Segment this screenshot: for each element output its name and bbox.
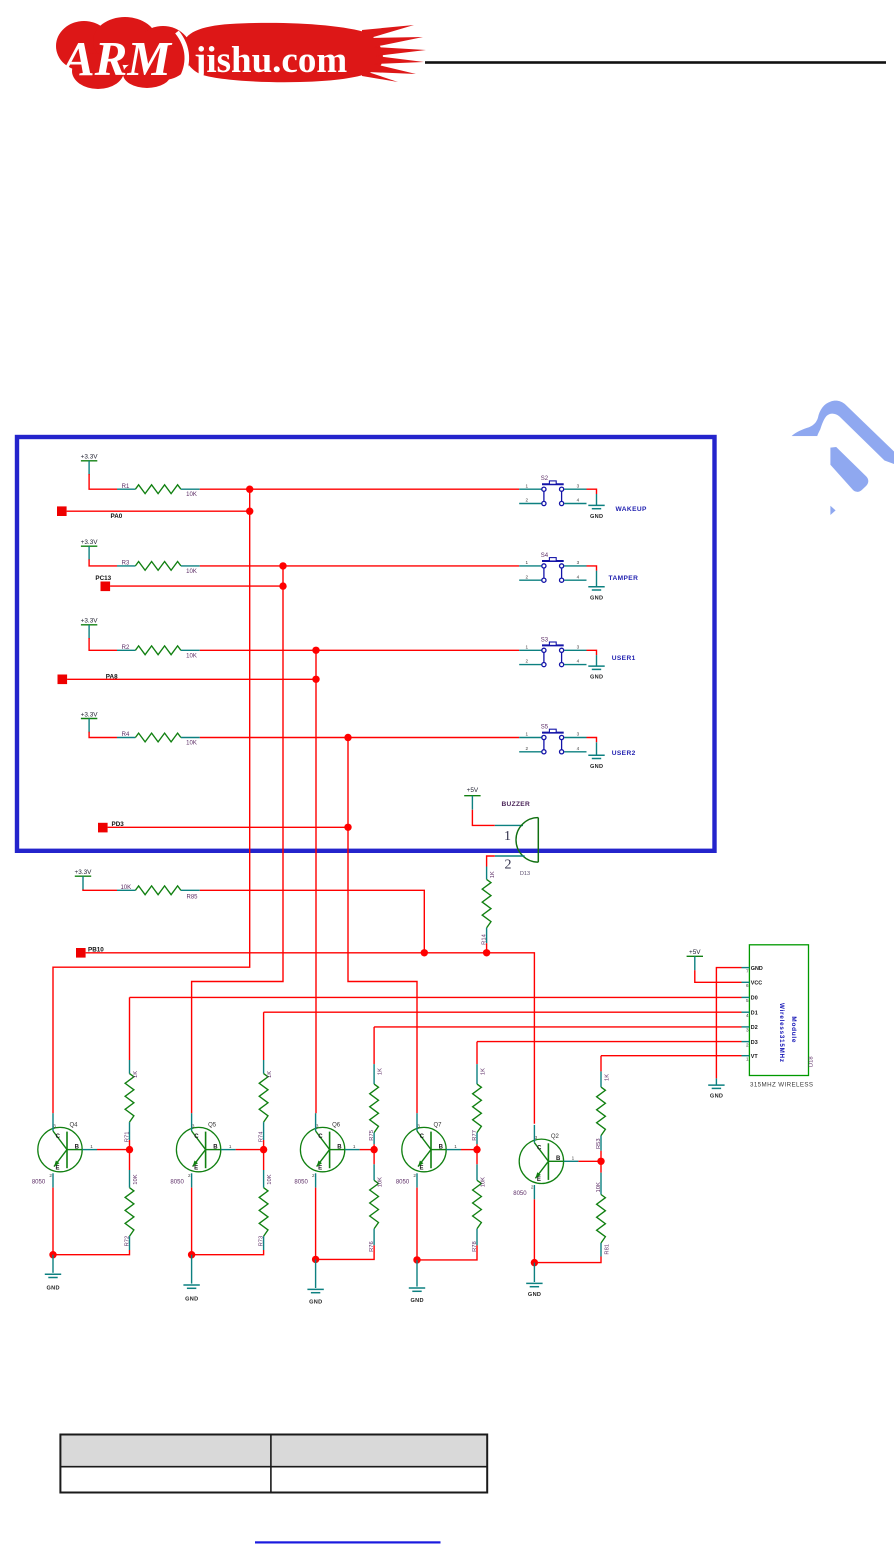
wire S5 pin3 to gnd (587, 738, 597, 743)
wire: +3.3V to R3 (89, 559, 117, 566)
wire module GND pin to ground (716, 968, 741, 1079)
svg-text:PC13: PC13 (95, 575, 111, 582)
svg-text:GND: GND (590, 595, 603, 601)
svg-text:R53: R53 (596, 1138, 602, 1149)
wire R2 to switch S3 (200, 649, 519, 651)
svg-text:R73: R73 (259, 1236, 265, 1247)
svg-text:3: 3 (577, 644, 580, 649)
buzzer D13 (516, 818, 538, 863)
svg-text:R77: R77 (472, 1130, 478, 1141)
resistor R73 10K (263, 1150, 265, 1170)
svg-text:1K: 1K (133, 1071, 139, 1078)
svg-text:10K: 10K (186, 741, 197, 747)
svg-text:S3: S3 (541, 637, 549, 643)
pin PB10 (76, 948, 86, 958)
wire: +3.3V to R4 (89, 732, 117, 738)
wire emitter Q5 down (191, 1188, 193, 1255)
svg-text:VCC: VCC (751, 981, 762, 987)
svg-text:D3: D3 (751, 1040, 758, 1046)
wire emitter Q2 down (533, 1199, 535, 1262)
svg-text:2: 2 (526, 574, 529, 579)
svg-text:S2: S2 (541, 476, 549, 482)
wire +5V to buzzer pin1 (472, 810, 494, 826)
svg-text:D18: D18 (808, 1056, 814, 1067)
svg-text:Module: Module (790, 1016, 797, 1042)
wire net D0 (130, 996, 742, 998)
wire R85 to PB10 node (200, 890, 424, 953)
resistor R81 10K (600, 1161, 602, 1172)
svg-text:R81: R81 (604, 1244, 610, 1255)
transistor Q6 (294, 1113, 359, 1187)
svg-text:+3.3V: +3.3V (81, 618, 99, 625)
resistor R78 10K (476, 1150, 478, 1165)
ground row1 (588, 505, 604, 508)
svg-text:ARM: ARM (59, 31, 172, 86)
node base Q6 (370, 1146, 377, 1153)
node junction R2/column (312, 647, 319, 654)
svg-text:10K: 10K (267, 1174, 273, 1184)
resistor R74 1K (263, 1012, 265, 1060)
pin PA8 (58, 675, 68, 685)
svg-text:GND: GND (590, 514, 603, 520)
ground Q6 (307, 1289, 323, 1292)
ground module (708, 1085, 724, 1088)
svg-text:R71: R71 (125, 1132, 131, 1143)
power +3.3V row4 (81, 719, 97, 733)
node emitter junction Q6 (312, 1256, 319, 1263)
module pin names (751, 966, 763, 1060)
svg-text:2: 2 (526, 659, 529, 664)
switch S2 (519, 481, 586, 506)
svg-text:7: 7 (746, 968, 749, 973)
svg-text:R1: R1 (122, 484, 130, 490)
wire column PA8 down to Q6 (315, 650, 317, 1113)
svg-text:USER1: USER1 (612, 655, 636, 662)
wire R1 to switch S2 (200, 488, 519, 490)
pin PD3 (98, 823, 108, 833)
svg-text:GND: GND (590, 675, 603, 681)
wire +3.3V to R85 (83, 888, 117, 891)
node junction R85/PB10 (421, 949, 428, 956)
wire buzzer pin2 to R14 (495, 855, 525, 857)
node junction R14/PB10 (483, 949, 490, 956)
svg-text:10K: 10K (378, 1177, 384, 1187)
power +3.3V row1 (81, 461, 97, 475)
svg-text:GND: GND (47, 1286, 60, 1292)
svg-text:Q2: Q2 (551, 1134, 560, 1140)
transistor Q5 (170, 1113, 235, 1187)
resistor R85 10K (117, 889, 135, 891)
switch S4 (519, 558, 586, 583)
svg-text:1: 1 (526, 644, 529, 649)
svg-text:1: 1 (746, 1057, 749, 1062)
svg-text:R2: R2 (122, 645, 130, 651)
resistor R75 1K (373, 1027, 375, 1064)
svg-text:315MHZ WIRELESS: 315MHZ WIRELESS (750, 1082, 813, 1089)
svg-text:PA0: PA0 (111, 513, 123, 520)
svg-text:3: 3 (577, 483, 580, 488)
svg-text:4: 4 (577, 498, 580, 503)
svg-text:Q4: Q4 (70, 1122, 79, 1128)
wire S4 pin3 to gnd (587, 566, 597, 571)
wire S2 pin3 to gnd (587, 489, 597, 494)
svg-text:+3.3V: +3.3V (81, 454, 99, 461)
svg-text:+5V: +5V (689, 949, 701, 956)
svg-text:10K: 10K (186, 653, 197, 659)
svg-text:4: 4 (577, 659, 580, 664)
svg-text:R4: R4 (122, 732, 130, 738)
svg-text:Wireless315MHz: Wireless315MHz (778, 1003, 785, 1062)
node junction R4/column (344, 734, 351, 741)
wire net VT (601, 1055, 742, 1057)
power +5V buzzer (464, 796, 480, 810)
node junction PD3/column (344, 824, 351, 831)
transistor Q7 (396, 1113, 461, 1187)
wire base Q2 (578, 1160, 601, 1162)
pin PC13 (101, 582, 111, 592)
svg-text:D2: D2 (751, 1025, 758, 1031)
ground row2 (588, 587, 604, 590)
ground Q2 (526, 1283, 542, 1286)
wire emitter Q6 down (315, 1188, 317, 1260)
svg-text:10K: 10K (596, 1182, 602, 1192)
resistor R1 10K (117, 488, 135, 490)
svg-text:VT: VT (751, 1054, 759, 1060)
svg-text:WAKEUP: WAKEUP (616, 506, 648, 513)
svg-text:2: 2 (526, 746, 529, 751)
resistor R53 1K (600, 1056, 602, 1072)
ground Q4 (45, 1274, 61, 1277)
node base Q7 (473, 1146, 480, 1153)
svg-text:R72: R72 (125, 1236, 131, 1247)
node emitter junction Q4 (49, 1251, 56, 1258)
svg-text:GND: GND (528, 1292, 541, 1298)
svg-text:+3.3V: +3.3V (81, 539, 99, 546)
wire base Q4 (97, 1149, 130, 1151)
svg-text:2: 2 (526, 498, 529, 503)
module pin numbers (746, 968, 749, 1061)
node base Q2 (597, 1158, 604, 1165)
node base Q4 (126, 1146, 133, 1153)
resistor R4 10K (117, 737, 135, 739)
ground row4 (588, 755, 604, 758)
switch S3 (519, 642, 586, 667)
pin PA0 (57, 506, 67, 516)
switch S5 (519, 729, 586, 754)
svg-text:GND: GND (590, 764, 603, 770)
power +5V module (687, 956, 703, 970)
wire column PD3 down to Q7 (348, 738, 417, 1114)
ground row3 (588, 666, 604, 669)
node emitter junction Q5 (188, 1251, 195, 1258)
svg-text:D1: D1 (751, 1010, 758, 1016)
ARMjishu logo (56, 17, 426, 89)
node base Q5 (260, 1146, 267, 1153)
wire emitter Q7 down (416, 1188, 418, 1260)
svg-text:R14: R14 (482, 933, 488, 944)
svg-text:1K: 1K (480, 1068, 486, 1075)
transistor Q4 (32, 1113, 97, 1187)
wire PA8 net (67, 678, 316, 680)
ground Q7 (409, 1288, 425, 1291)
wire PD3 net (108, 826, 348, 828)
svg-text:GND: GND (309, 1299, 322, 1305)
svg-text:Q7: Q7 (434, 1122, 443, 1128)
svg-text:2: 2 (505, 857, 512, 872)
svg-text:+5V: +5V (467, 787, 479, 794)
svg-text:GND: GND (751, 966, 763, 972)
node junction PA8/column (312, 676, 319, 683)
svg-text:2: 2 (746, 1042, 749, 1047)
svg-text:10K: 10K (186, 569, 197, 575)
svg-text:6: 6 (746, 983, 749, 988)
blue border box (17, 437, 715, 851)
svg-text:R85: R85 (186, 895, 198, 901)
svg-text:USER2: USER2 (612, 750, 636, 757)
svg-text:GND: GND (710, 1094, 723, 1100)
wire base Q6 (360, 1149, 375, 1151)
wire column PC13 down to Q5 (192, 566, 283, 1113)
svg-text:1K: 1K (604, 1074, 610, 1081)
wire net D1 (264, 1011, 742, 1013)
power +3.3V row3 (81, 625, 97, 639)
svg-text:Q5: Q5 (208, 1122, 217, 1128)
resistor R77 1K (476, 1042, 478, 1065)
svg-text:10K: 10K (186, 492, 197, 498)
svg-text:3: 3 (746, 1028, 749, 1033)
node emitter junction Q2 (531, 1259, 538, 1266)
wire: +3.3V to R1 (89, 474, 117, 489)
node junction R3/column (279, 562, 286, 569)
svg-text:jishu.com: jishu.com (193, 40, 347, 81)
svg-text:Q6: Q6 (332, 1122, 341, 1128)
resistor R72 10K (129, 1150, 131, 1170)
wire net D2 (374, 1026, 741, 1028)
svg-text:GND: GND (411, 1298, 424, 1304)
wire PB10 net to Q2 collector (86, 953, 535, 1124)
svg-text:+3.3V: +3.3V (75, 869, 93, 876)
watermark glyph (clipped by schematic image white area) (0, 401, 894, 1137)
wire R3 to switch S4 (200, 565, 519, 567)
svg-text:3: 3 (577, 732, 580, 737)
node junction PC13/column (279, 582, 286, 589)
svg-text:3: 3 (577, 560, 580, 565)
svg-text:1: 1 (526, 732, 529, 737)
svg-text:1: 1 (504, 829, 511, 844)
wire S3 pin3 to gnd (587, 650, 597, 655)
svg-text:R74: R74 (259, 1131, 265, 1142)
svg-text:1K: 1K (378, 1068, 384, 1075)
svg-text:1: 1 (526, 560, 529, 565)
svg-text:4: 4 (577, 746, 580, 751)
wire base Q5 (236, 1149, 264, 1151)
svg-text:TAMPER: TAMPER (609, 575, 639, 582)
transistor Q2 (513, 1125, 578, 1199)
svg-text:4: 4 (577, 574, 580, 579)
resistor R3 10K (117, 565, 135, 567)
wire: +3.3V to R2 (89, 638, 117, 650)
svg-text:10K: 10K (133, 1174, 139, 1184)
svg-text:R75: R75 (369, 1130, 375, 1141)
module pin leads (742, 968, 750, 1056)
resistor R71 1K (129, 997, 131, 1060)
svg-text:R78: R78 (472, 1241, 478, 1252)
wire column PA0 down to Q4 (53, 489, 250, 1113)
svg-text:+3.3V: +3.3V (81, 711, 99, 718)
power +3.3V row2 (81, 546, 97, 560)
svg-text:R76: R76 (369, 1241, 375, 1252)
bottom hyperlink underline (255, 1541, 441, 1543)
wire net D3 (477, 1041, 742, 1043)
svg-text:4: 4 (746, 1013, 749, 1018)
wire emitter Q4 down (52, 1188, 54, 1255)
node junction R1/PA0 column (246, 486, 253, 493)
resistor R2 10K (117, 649, 135, 651)
svg-text:1K: 1K (267, 1071, 273, 1078)
svg-text:R3: R3 (122, 561, 130, 567)
wire +5V to VCC (695, 970, 742, 982)
svg-text:GND: GND (185, 1296, 198, 1302)
svg-text:S4: S4 (541, 553, 549, 559)
svg-text:1: 1 (526, 483, 529, 488)
node emitter junction Q7 (413, 1256, 420, 1263)
svg-text:5: 5 (746, 998, 749, 1003)
power +3.3V R85 (75, 876, 91, 890)
svg-text:BUZZER: BUZZER (502, 801, 531, 808)
wire base Q7 (461, 1149, 477, 1151)
svg-text:D0: D0 (751, 996, 758, 1002)
wire R4 to switch S5 (200, 737, 519, 739)
svg-text:10K: 10K (480, 1177, 486, 1187)
ground Q5 (183, 1285, 199, 1288)
module body (749, 945, 808, 1076)
wire PC13 net (110, 585, 283, 587)
header rule (425, 61, 886, 64)
bottom table (60, 1435, 487, 1493)
node junction PA0/column (246, 508, 253, 515)
svg-text:1K: 1K (490, 871, 496, 878)
resistor R14 1K (486, 867, 488, 880)
resistor R76 10K (373, 1150, 375, 1165)
svg-text:D13: D13 (520, 871, 530, 877)
svg-text:10K: 10K (120, 885, 131, 891)
wire PA0 net (67, 510, 250, 512)
svg-text:S5: S5 (541, 725, 549, 731)
